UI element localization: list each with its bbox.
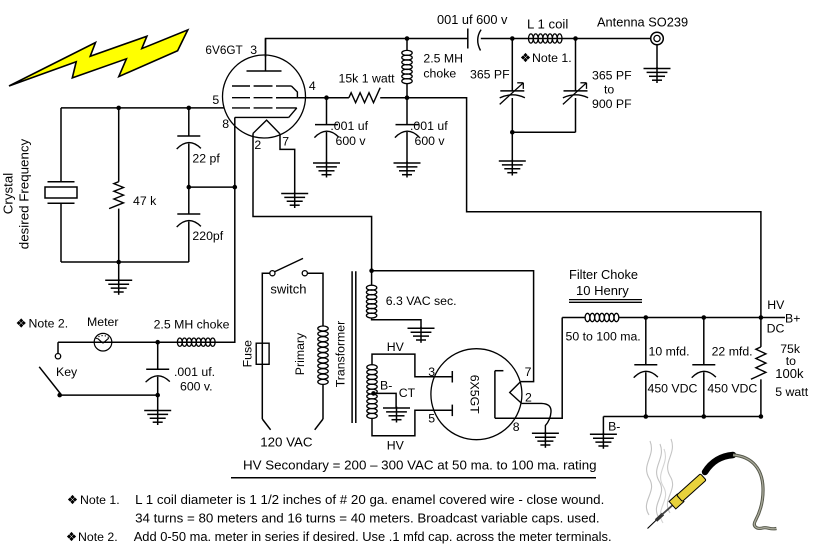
svg-text:10 mfd.: 10 mfd. (649, 344, 690, 358)
svg-text:2: 2 (525, 390, 532, 404)
svg-text:Meter: Meter (87, 315, 118, 329)
svg-text:HV: HV (387, 438, 405, 452)
svg-text:900 PF: 900 PF (592, 97, 632, 111)
svg-text:001 uf 600 v: 001 uf 600 v (437, 12, 508, 27)
svg-text:10 Henry: 10 Henry (576, 283, 629, 298)
svg-text:600 v: 600 v (415, 134, 446, 148)
svg-text:Note 2.: Note 2. (29, 316, 69, 330)
svg-text:B+: B+ (785, 312, 800, 326)
svg-text:3: 3 (250, 43, 257, 57)
svg-text:47 k: 47 k (133, 194, 157, 208)
svg-text:desired Frequency: desired Frequency (17, 138, 32, 249)
svg-text:34 turns = 80 meters and 16 tu: 34 turns = 80 meters and 16 turns = 40 m… (135, 510, 600, 525)
svg-text:.001 uf: .001 uf (330, 119, 368, 133)
svg-text:220pf: 220pf (192, 229, 223, 243)
svg-text:22 mfd.: 22 mfd. (712, 344, 753, 358)
svg-text:6V6GT: 6V6GT (205, 43, 242, 57)
svg-text:50 to 100 ma.: 50 to 100 ma. (566, 329, 641, 343)
svg-text:6.3 VAC sec.: 6.3 VAC sec. (386, 294, 457, 308)
svg-text:Note 1.: Note 1. (532, 51, 572, 65)
svg-text:HV Secondary = 200 – 300 VAC: HV Secondary = 200 – 300 VAC at 50 ma. t… (243, 457, 597, 472)
svg-text:8: 8 (513, 420, 520, 434)
svg-text:.001 uf: .001 uf (410, 119, 448, 133)
svg-text:HV: HV (387, 340, 405, 354)
svg-text:450 VDC: 450 VDC (707, 382, 757, 396)
svg-text:22 pf: 22 pf (192, 152, 220, 166)
svg-text:7: 7 (282, 135, 289, 149)
svg-text:100k: 100k (775, 366, 804, 381)
svg-text:Filter Choke: Filter Choke (569, 267, 638, 282)
svg-text:3: 3 (428, 365, 435, 379)
svg-text:120 VAC: 120 VAC (260, 434, 313, 449)
svg-text:HV: HV (767, 298, 785, 312)
svg-text:5 watt: 5 watt (775, 385, 808, 399)
svg-text:Fuse: Fuse (240, 340, 254, 367)
svg-text:2.5 MH: 2.5 MH (423, 52, 463, 66)
svg-text:4: 4 (309, 79, 316, 93)
svg-text:6X5GT: 6X5GT (468, 375, 482, 414)
svg-text:Note 1.: Note 1. (80, 493, 120, 507)
svg-text:Primary: Primary (293, 332, 307, 375)
svg-text:Key: Key (56, 365, 78, 379)
svg-text:15k 1 watt: 15k 1 watt (339, 71, 396, 85)
svg-text:5: 5 (428, 412, 435, 426)
svg-text:600 v: 600 v (336, 134, 367, 148)
svg-text:Crystal: Crystal (1, 173, 16, 215)
svg-text:switch: switch (270, 282, 306, 297)
svg-text:8: 8 (222, 117, 229, 131)
svg-text:Note 2.: Note 2. (78, 530, 118, 544)
svg-text:to: to (604, 83, 614, 97)
svg-text:B-: B- (380, 379, 392, 393)
svg-text:Antenna SO239: Antenna SO239 (597, 15, 688, 30)
svg-text:Transformer: Transformer (334, 321, 348, 388)
svg-text:.001 uf.: .001 uf. (174, 365, 215, 379)
svg-text:choke: choke (423, 66, 456, 80)
svg-text:365 PF: 365 PF (470, 67, 510, 81)
svg-text:DC: DC (767, 322, 785, 336)
svg-text:Add 0-50 ma. meter in series i: Add 0-50 ma. meter in series if desired.… (134, 529, 612, 544)
svg-text:CT: CT (399, 386, 416, 400)
svg-text:365 PF: 365 PF (592, 68, 632, 82)
svg-text:L 1 coil: L 1 coil (527, 16, 568, 31)
svg-text:450 VDC: 450 VDC (648, 382, 698, 396)
svg-text:2: 2 (254, 138, 261, 152)
svg-text:2.5 MH choke: 2.5 MH choke (154, 317, 230, 331)
svg-text:600 v.: 600 v. (180, 380, 213, 394)
svg-text:7: 7 (525, 365, 532, 379)
svg-text:L 1 coil diameter is 1 1/2 inc: L 1 coil diameter is 1 1/2 inches of # 2… (135, 492, 604, 507)
svg-text:B-: B- (608, 419, 620, 433)
svg-text:5: 5 (212, 93, 219, 107)
